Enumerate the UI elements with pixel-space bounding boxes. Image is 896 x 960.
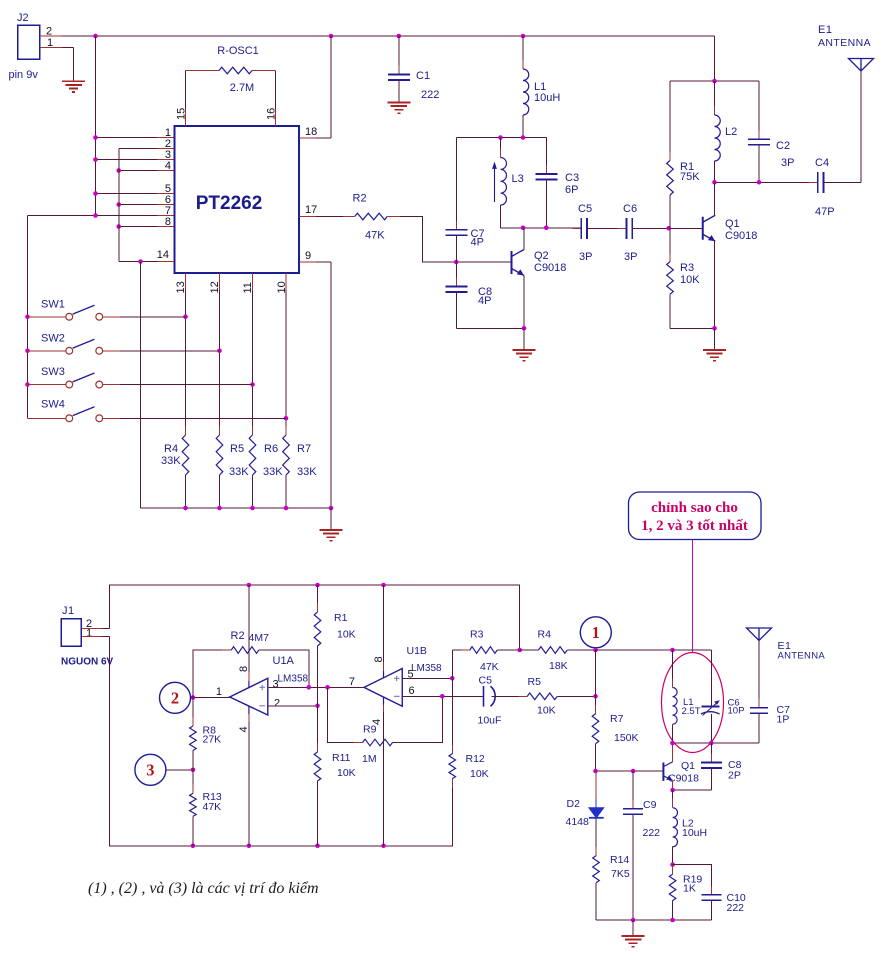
svg-text:3: 3 [146,760,154,779]
svg-text:4P: 4P [471,237,484,249]
svg-text:2P: 2P [728,770,741,782]
ground below J2 [62,81,85,92]
inductor L2 [714,81,716,115]
svg-text:R2: R2 [353,193,367,205]
capacitor C2 3P [758,81,760,139]
node R1 bottom [666,226,671,231]
svg-text:C3: C3 [565,172,579,184]
svg-text:3: 3 [273,679,279,691]
resistor R5 10K bottom [492,695,528,697]
capacitor C6 3P [618,227,642,229]
svg-text:SW3: SW3 [41,366,65,378]
svg-text:4148: 4148 [566,816,590,828]
wire J2 pin1 to ground [40,47,63,49]
svg-text:E1: E1 [818,24,832,36]
node rail-L1 [521,34,526,39]
capacitor C5 3P [572,227,596,229]
wire U1B supply pin 8 [383,585,385,662]
svg-text:chỉnh sao cho: chỉnh sao cho [651,500,738,516]
svg-text:10uH: 10uH [682,827,707,839]
wire left bus A (pins 1,3,5,7) [95,36,97,216]
wire pin5 node vertical [451,650,453,678]
pin 15 stub [185,109,187,126]
svg-text:222: 222 [643,827,661,839]
node rail-pin18 [329,34,334,39]
node rail R7 [284,506,289,511]
svg-text:C9018: C9018 [725,230,757,242]
node rail R6 [250,506,255,511]
pin 12 line down to R5 [219,273,221,290]
wire U1A supply pin 4 [248,706,250,714]
wire R3 to Q1 emitter [670,327,715,329]
wire tank bottom [673,742,760,744]
svg-text:R4: R4 [538,629,552,641]
op-amp U1B LM358 [364,669,402,707]
svg-text:10K: 10K [337,629,356,641]
svg-text:17: 17 [305,204,317,216]
svg-text:4: 4 [165,160,171,172]
pin 14 wire [158,261,175,263]
svg-text:LM358: LM358 [411,663,442,674]
svg-text:pin 9v: pin 9v [9,69,39,81]
node Q1 emitter gnd [712,326,717,331]
resistor R13 47K [192,770,194,794]
svg-text:3P: 3P [624,251,637,263]
capacitor C7 1P bottom [758,641,760,708]
resistor R19 1K [672,865,674,875]
node C9 top [631,769,636,774]
wire U1A supply pin 8 [248,585,250,672]
capacitor C8 2P bottom [710,743,712,763]
marker circle 2 [160,682,191,713]
svg-text:2: 2 [171,688,179,707]
wire left bus down to ground rail [110,637,453,846]
svg-text:C5: C5 [578,203,592,215]
svg-text:10K: 10K [680,274,700,286]
wire J2 pin2 to VCC rail [40,35,63,37]
svg-text:D2: D2 [567,798,581,810]
svg-text:1, 2 và 3 tốt nhất: 1, 2 và 3 tốt nhất [641,518,748,534]
wire R2 to Q2 base [387,217,511,263]
node pin5 R3R12 [450,676,455,681]
ground rail under R4-R7 [141,507,332,509]
svg-text:4: 4 [238,726,250,732]
node SW2-pin12 [217,348,222,353]
resistor R14 7K5 [595,847,597,892]
connector J2 [18,25,40,59]
resistor R2 4M7 feedback [193,650,231,698]
svg-text:R7: R7 [297,443,311,455]
resistor R3 47K bottom [452,649,470,651]
pin 11 line down to R6 [252,273,254,290]
resistor R4 33K [185,426,187,484]
wire U1A output to marker 2 [191,697,231,699]
svg-text:U1A: U1A [273,655,295,667]
node SW4-pin10 [284,416,289,421]
node 1 [593,648,598,653]
node sw bus SW2 [25,348,30,353]
svg-text:33K: 33K [161,455,181,467]
ground bottom circuit [622,936,645,947]
svg-text:C4: C4 [815,157,829,169]
svg-text:R-OSC1: R-OSC1 [217,45,259,57]
svg-text:SW4: SW4 [41,399,65,411]
node rail R4 [183,506,188,511]
ground below C1 [387,103,410,114]
svg-text:11: 11 [242,282,254,293]
node C3 bottom [544,225,549,230]
VCC top rail [96,35,715,37]
callout box chinh sao cho [629,492,762,540]
node bus2-pin6 [116,202,121,207]
svg-text:L3: L3 [512,173,524,185]
wire to bottom ground [632,920,634,936]
ground below Q2 [513,350,536,361]
pin 9 wire down to ground rail [299,261,316,263]
wire U1B pin5 [402,677,452,679]
wire C8 to Q2 emitter [456,327,524,329]
wire pin6 [119,204,157,206]
node fb R2 [306,685,311,690]
svg-text:27K: 27K [203,734,222,746]
svg-text:C9018: C9018 [534,262,566,274]
pin 10 line down to R7 [285,273,287,290]
wire Q1 collector [672,743,674,762]
svg-text:10K: 10K [337,767,356,779]
wire pin7 to switch bus [28,215,158,217]
node R7-D2 [593,769,598,774]
resistor R8 27K [192,698,194,727]
svg-text:13: 13 [175,281,187,293]
svg-text:47K: 47K [480,661,499,673]
svg-text:2.5T: 2.5T [682,706,701,717]
pin 16 stub [275,109,277,126]
node gnd rail R13 [191,844,196,849]
connector J1 [61,619,81,647]
svg-text:C6: C6 [623,203,637,215]
wire node1 to tank [596,649,712,651]
resistor R7 150K [595,650,597,714]
svg-text:Q2: Q2 [534,250,549,262]
svg-text:R7: R7 [610,713,624,725]
svg-text:L2: L2 [725,126,737,138]
svg-text:10K: 10K [537,705,556,717]
wire pin5 [96,193,158,195]
capacitor C5 10uF [483,686,485,707]
node gnd rail U1B pin4 [381,844,386,849]
node SW1-pin13 [183,314,188,319]
node Q2 collector [521,225,526,230]
svg-text:ANTENNA: ANTENNA [818,37,871,49]
node pin14 branch [138,259,143,264]
node output U1A [191,695,196,700]
svg-text:1: 1 [86,628,92,640]
node rail R5 [217,506,222,511]
transistor Q1 C9018 [702,217,704,240]
svg-text:8: 8 [238,666,250,672]
IC U1 PT2262 [175,126,300,273]
svg-text:R1: R1 [334,612,348,624]
node L3 top [498,135,503,140]
svg-text:R14: R14 [610,854,629,866]
node SW3-pin11 [250,382,255,387]
switch SW2 [28,350,66,352]
resistor R2 47K [346,216,397,218]
node rail U1B pin8 [381,583,386,588]
wire Q2 emitter to ground [523,328,525,350]
svg-text:6P: 6P [565,184,578,196]
resistor R1 10K bottom [317,585,319,612]
svg-text:J2: J2 [17,12,29,24]
svg-text:47P: 47P [815,206,835,218]
svg-text:10: 10 [276,281,288,293]
svg-text:NGUON 6V: NGUON 6V [61,657,114,668]
svg-text:4P: 4P [478,295,491,307]
switch SW4 [28,417,66,419]
capacitor C8 4P [455,262,457,287]
wire oscillator bottom to C5 [501,227,582,229]
svg-text:7: 7 [349,676,355,688]
resistor R7 33K [285,426,287,484]
wire pin4 [119,170,157,172]
node tank L1 [670,648,675,653]
svg-text:8: 8 [373,656,385,662]
wire marker3 [166,769,193,771]
node rail R1 [315,583,320,588]
pin 17 wire [299,216,316,218]
resistor R4 18K bottom [530,649,577,651]
svg-text:J1: J1 [62,605,75,617]
svg-text:1M: 1M [362,753,377,765]
wire pin1 [96,137,158,139]
node bus-pin1 [93,135,98,140]
svg-text:33K: 33K [297,466,317,478]
svg-text:1P: 1P [777,714,790,726]
svg-text:150K: 150K [614,732,639,744]
node gnd rail R11 [315,844,320,849]
node Q1 emitter C8 [670,788,675,793]
adjust ellipse marker [662,653,724,753]
marker circle 3 [135,754,166,785]
inductor L3 [500,138,502,158]
node L2 bottom [670,862,675,867]
node sw bus SW1 [25,314,30,319]
node L1 bottom [521,135,526,140]
wire pin2 [119,148,157,150]
svg-text:222: 222 [727,902,745,914]
capacitor C1 222 [398,36,400,75]
wire J1 pin2 [81,628,102,630]
node gnd R19 [670,918,675,923]
svg-text:7K5: 7K5 [611,868,630,880]
node fb R9 [325,685,330,690]
svg-text:R12: R12 [466,753,485,765]
svg-text:C1: C1 [416,70,430,82]
node C2 bottom [757,180,762,185]
op-amp U1A LM358 [230,678,268,715]
svg-text:2.7M: 2.7M [230,82,254,94]
marker circle 1 [580,617,611,648]
switch left bus [27,216,29,419]
inductor L2 10uH bottom [672,790,674,808]
svg-text:15: 15 [176,108,188,120]
svg-text:R5: R5 [528,676,542,688]
node bus-pin5 [93,191,98,196]
svg-text:9: 9 [305,250,311,262]
wire oscillator top [456,137,546,139]
wire U1B supply pin 4 [383,697,385,705]
tank trimmer C6 10P [710,650,712,707]
resistor R6 33K [252,426,254,484]
pin 18 wire to rail [299,137,316,139]
svg-text:ANTENNA: ANTENNA [778,651,826,662]
diode D2 4148 [595,771,597,799]
arrow on L3 [494,167,496,202]
svg-text:R5: R5 [230,443,244,455]
svg-text:47K: 47K [365,230,385,242]
node rail-bus [93,34,98,39]
switch SW1 [28,316,66,318]
antenna E1 top [849,59,874,72]
wire U1B pin6 to C5 [402,695,483,697]
svg-text:C5: C5 [479,675,493,687]
node pin6 R9 [440,694,445,699]
svg-text:4: 4 [371,719,383,725]
svg-text:R3: R3 [470,629,484,641]
bottom ground rail [596,919,712,921]
svg-text:Q1: Q1 [681,760,695,772]
svg-text:C2: C2 [776,140,790,152]
wire pin14 branch down to ground rail [140,262,142,509]
resistor R9 1M [328,687,363,742]
svg-text:Q1: Q1 [725,218,740,230]
svg-text:R2: R2 [231,630,245,642]
ground below resistor rail [320,530,343,541]
svg-text:LM358: LM358 [278,674,309,685]
svg-text:SW2: SW2 [41,333,65,345]
wire right bus B (pins 2,4,6,8 to pin14) [118,149,120,262]
node sw bus SW3 [25,382,30,387]
switch SW3 [28,384,66,386]
node R5 to R7 line [593,694,598,699]
svg-text:C9: C9 [643,799,657,811]
node rail gnd [329,506,334,511]
svg-text:1: 1 [216,686,222,698]
svg-text:1: 1 [592,623,600,642]
resistor R5 33K [219,426,221,484]
node gnd rail U1A pin4 [247,844,252,849]
node bus2-pin8 [116,224,121,229]
resistor R12 10K [451,745,453,788]
svg-text:10uF: 10uF [478,715,502,727]
svg-text:3P: 3P [781,157,794,169]
capacitor C10 222 [673,865,712,895]
svg-text:R11: R11 [332,752,351,764]
svg-text:33K: 33K [263,466,283,478]
svg-text:33K: 33K [229,466,249,478]
svg-text:U1B: U1B [407,645,427,657]
svg-text:75K: 75K [680,171,700,183]
resistor R-OSC1 2.7M [185,71,187,110]
resistor R1 75K [669,81,671,161]
resistor R11 10K [317,706,319,752]
transistor Q1 C9018 bottom [662,763,664,781]
node pin2 R1R11 [315,704,320,709]
wire J1 pin1 [81,636,102,638]
svg-text:10P: 10P [728,706,745,717]
node tank bottom C6 [709,741,714,746]
node Q1 collector [712,180,717,185]
svg-text:10K: 10K [470,768,489,780]
wire to ground [330,508,332,530]
wire left bus to top rail [110,585,520,650]
wire tank bottom to C4 [715,181,818,183]
wire U1A pin2 [268,705,318,707]
node bus-pin7 [93,213,98,218]
wire to ground [714,328,716,350]
svg-text:SW1: SW1 [41,299,65,311]
transistor Q2 C9018 [511,251,513,274]
inductor L1 10uH [522,36,524,69]
tank circuit inductor L1 2.5T [672,650,674,688]
svg-text:4M7: 4M7 [249,632,270,644]
wire U1A pin3 to U1B pin7 [268,686,365,688]
svg-text:16: 16 [266,108,278,120]
svg-text:(1) , (2) , và (3) là các vị t: (1) , (2) , và (3) là các vị trí đo kiểm [88,880,319,897]
pin 13 line down to R4 [185,273,187,290]
svg-text:2: 2 [274,698,280,710]
node C7-C8 base [454,260,459,265]
node bus2-pin4 [116,168,121,173]
svg-text:6: 6 [409,685,415,697]
node tank bottom L1 [670,741,675,746]
node R3-R4 [517,648,522,653]
svg-text:R3: R3 [680,262,694,274]
capacitor C7 4P [455,138,457,230]
capacitor C4 47P [809,181,833,183]
svg-text:14: 14 [157,249,169,261]
wire base line [596,770,664,772]
node Q2 emitter gnd [522,326,527,331]
capacitor C3 6P [545,138,547,175]
svg-text:18K: 18K [549,660,568,672]
svg-text:222: 222 [421,89,439,101]
wire pin3 [96,159,158,161]
node L2 top [712,79,717,84]
svg-text:R4: R4 [164,443,178,455]
node bus-pin3 [93,157,98,162]
ground below Q1 [703,350,726,361]
capacitor C9 222 [632,771,634,809]
node gnd C9 [631,918,636,923]
svg-text:47K: 47K [203,801,222,813]
node R8-R13 [191,768,196,773]
svg-text:10uH: 10uH [534,92,560,104]
svg-text:8: 8 [165,216,171,228]
node rail U1A pin8 [247,583,252,588]
svg-text:12: 12 [209,281,221,293]
svg-text:1K: 1K [683,883,696,895]
resistor R3 10K [669,228,671,262]
wire collector top rail [714,36,716,81]
wire Q1 emitter [672,780,674,790]
node rail-C1 [397,34,402,39]
svg-text:3P: 3P [579,251,592,263]
svg-text:18: 18 [305,126,317,138]
wire pin8 [119,226,157,228]
antenna E1 bottom [747,628,772,641]
svg-text:R6: R6 [264,443,278,455]
